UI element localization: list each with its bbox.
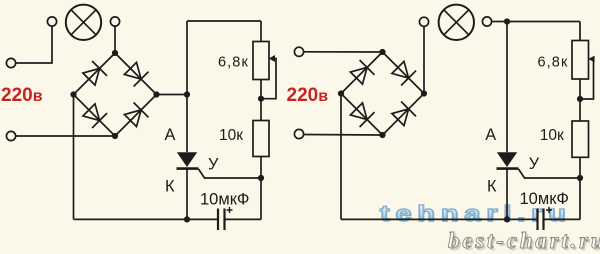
terminal lamp-left [47, 17, 56, 26]
junction gate node 2 [577, 175, 583, 181]
bridge 2 frame wires [341, 52, 424, 135]
wire R2 bottom lead [260, 157, 262, 179]
junction cathode-rail 2 [504, 216, 510, 222]
thyristor VS1 cathode lead [186, 169, 188, 220]
junction anode node 2 [504, 18, 510, 24]
thyristor VS1 gate wire [199, 169, 262, 178]
svg-text:А: А [165, 126, 176, 144]
terminal lamp2-left [419, 17, 428, 26]
thyristor VS2 triangle [497, 152, 517, 167]
potentiometer R1 wiper [261, 55, 276, 99]
junction anode node [184, 91, 190, 97]
wire lamp2 to anode node [492, 21, 507, 23]
wire top rail [187, 20, 261, 22]
watermark best-chart.ru [448, 228, 600, 254]
svg-text:6,8к: 6,8к [538, 55, 569, 71]
diode VD2 [124, 62, 148, 86]
junction wiper node [258, 96, 264, 102]
junction bridge-right [153, 91, 159, 97]
junction bridge2-right [421, 90, 427, 96]
wire cap2 right lead [544, 218, 581, 220]
diode VD8 [392, 102, 416, 126]
potentiometer R3 wiper [580, 56, 595, 99]
wire bridge-left down to bottom rail [73, 95, 75, 220]
diode VD4 [124, 103, 148, 127]
resistor R2 10к body [253, 121, 269, 157]
terminal lamp-right [110, 17, 119, 26]
terminal X4 [294, 129, 303, 138]
svg-text:К: К [165, 177, 175, 195]
junction gate node [258, 175, 264, 181]
svg-text:220в: 220в [1, 85, 43, 106]
junction wiper node 2 [577, 96, 583, 102]
watermark tehnari.ru [380, 202, 572, 227]
potentiometer R3 6,8к body [572, 41, 589, 80]
svg-text:220в: 220в [287, 85, 329, 106]
svg-text:10к: 10к [219, 127, 243, 144]
junction bridge2-top [379, 49, 385, 55]
svg-text:10мкФ: 10мкФ [520, 190, 569, 208]
wire X2 to bridge bottom [16, 135, 115, 137]
bottom rail 2 left section [341, 218, 538, 220]
junction bridge2-left [338, 90, 344, 96]
wire gate node 2 down to cap [579, 178, 581, 219]
junction bridge2-bottom [379, 132, 385, 138]
capacitor C1 plates [218, 209, 225, 231]
svg-text:10к: 10к [540, 127, 564, 144]
capacitor C1 plus sign [227, 207, 233, 213]
lamp HL2 [439, 5, 474, 40]
bottom rail left section [74, 218, 218, 220]
thyristor VS2 gate wire [519, 169, 581, 178]
wire gate node down to cap [260, 178, 262, 219]
wire bridge2-right up to lamp [423, 27, 425, 94]
junction bridge-top [112, 50, 118, 56]
potentiometer R1 6,8к body [253, 42, 269, 80]
junction bridge-left [70, 91, 76, 97]
wire R4 bottom lead [579, 157, 581, 178]
wire anode riser [186, 21, 188, 152]
wire pot to R2 [260, 80, 262, 121]
terminal X2 [6, 131, 15, 140]
wire pot2 to R4 [579, 79, 581, 121]
wire pot2 top lead [579, 22, 581, 41]
svg-text:У: У [529, 155, 540, 173]
wire bridge2-left down to rail [340, 94, 342, 220]
terminal lamp2-right [482, 17, 491, 26]
thyristor VS1 triangle [177, 152, 197, 167]
wire pot top lead [260, 21, 262, 42]
junction bridge-bottom [112, 133, 118, 139]
wire cap right lead [225, 218, 262, 220]
bridge 1 frame wires [74, 53, 157, 136]
wire X1 to switch riser [16, 26, 52, 63]
capacitor C2 plus sign [546, 207, 552, 213]
wire top rail 2 [507, 21, 580, 23]
wire X4 to bridge2 bottom [304, 134, 383, 137]
thyristor VS2 cathode bar [497, 167, 519, 170]
thyristor VS2 cathode lead [506, 169, 508, 220]
thyristor VS2 anode lead [506, 22, 508, 153]
thyristor VS1 cathode bar [177, 167, 199, 170]
wire X3 to bridge2 top [304, 51, 383, 53]
diode VD3 [83, 104, 107, 128]
diode VD6 [392, 61, 416, 85]
diode VD1 [83, 61, 107, 85]
diode VD5 [350, 60, 374, 84]
terminal X1 [6, 58, 15, 67]
svg-text:У: У [208, 156, 219, 174]
diode VD7 [350, 103, 374, 127]
svg-text:10мкФ: 10мкФ [200, 191, 249, 209]
svg-text:6,8к: 6,8к [218, 55, 249, 71]
junction cathode-rail [184, 216, 190, 222]
terminal X3 [294, 47, 303, 56]
wire bridge-right to anode riser [157, 94, 188, 96]
svg-text:А: А [485, 126, 496, 144]
svg-text:К: К [487, 178, 497, 196]
lamp HL1 [66, 5, 101, 40]
wire lamp-right to bridge top [114, 26, 116, 53]
resistor R4 10к body [572, 121, 589, 157]
capacitor C2 plates [538, 209, 544, 231]
